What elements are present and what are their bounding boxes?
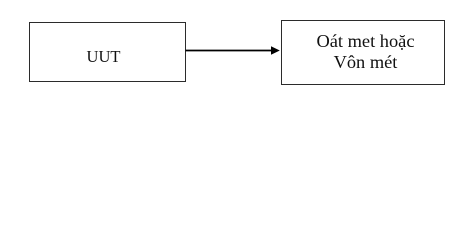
label Oat met hoac / Von met — [284, 31, 448, 74]
block meter (Oat met hoac Von met) — [281, 20, 445, 85]
wire with arrow from UUT to meter — [0, 0, 476, 110]
block UUT — [29, 22, 186, 82]
label UUT — [25, 49, 182, 66]
